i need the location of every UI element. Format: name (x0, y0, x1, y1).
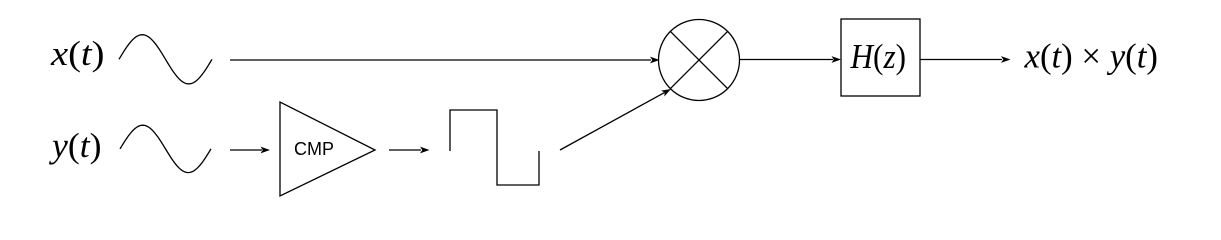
svg-text:x(t) × y(t): x(t) × y(t) (1024, 37, 1158, 76)
svg-text:CMP: CMP (294, 139, 334, 159)
svg-text:x(t): x(t) (50, 34, 105, 73)
svg-text:y(t): y(t) (49, 126, 102, 165)
svg-text:H(z): H(z) (850, 37, 906, 76)
